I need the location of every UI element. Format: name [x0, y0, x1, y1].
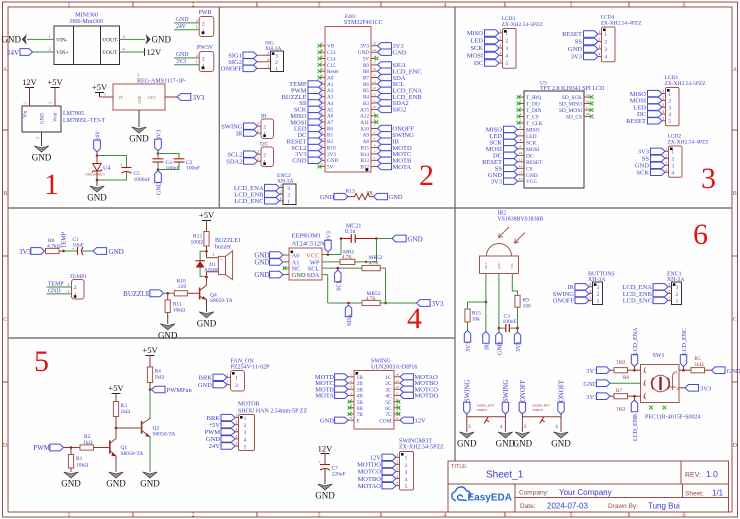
- svg-text:VCC: VCC: [526, 179, 537, 185]
- pin 3 F401 B14: [371, 153, 378, 155]
- net flag SWING to IR pin2: [244, 123, 258, 129]
- wire Q4 emitter to GND: [206, 299, 208, 311]
- svg-text:2: 2: [677, 386, 679, 391]
- svg-text:4: 4: [244, 437, 247, 443]
- svg-text:1: 1: [671, 150, 674, 156]
- svg-text:GND: GND: [315, 491, 335, 501]
- svg-text:4: 4: [396, 474, 398, 479]
- svg-text:TEMP1: TEMP1: [70, 274, 88, 280]
- svg-text:100Ω: 100Ω: [191, 239, 203, 245]
- net label 12V at VOUT: [144, 48, 146, 55]
- pin 13 F401 B5: [371, 89, 378, 91]
- pin 23 F401 3V3: [319, 153, 326, 155]
- net flag MISO: [648, 90, 663, 96]
- svg-text:VOUT: VOUT: [102, 50, 118, 56]
- svg-text:C: C: [733, 317, 737, 323]
- svg-text:Your Company: Your Company: [559, 488, 612, 497]
- svg-text:3V3: 3V3: [327, 152, 336, 158]
- junction VCC: [327, 253, 330, 256]
- pin 8 F401 A11: [371, 121, 378, 123]
- svg-text:DC: DC: [474, 60, 483, 67]
- wire +5V to REG IN: [100, 96, 114, 98]
- svg-text:12V: 12V: [415, 417, 427, 424]
- svg-text:H06-Mini360: H06-Mini360: [70, 19, 103, 25]
- wire 24V to PWR pin1: [174, 29, 199, 31]
- svg-text:5: 5: [570, 512, 573, 518]
- net flag LCD_ENC: [378, 68, 392, 74]
- svg-text:7: 7: [520, 132, 522, 136]
- svg-text:3V3: 3V3: [491, 178, 502, 185]
- svg-text:4: 4: [665, 168, 667, 173]
- pin 25 F401 B2: [319, 140, 326, 142]
- svg-text:B5: B5: [363, 88, 369, 94]
- svg-text:SD_MISO: SD_MISO: [559, 102, 582, 108]
- svg-text:2: 2: [48, 47, 50, 52]
- svg-text:T_IRQ: T_IRQ: [526, 95, 541, 101]
- svg-text:3V3: 3V3: [360, 44, 369, 50]
- svg-text:3: 3: [671, 164, 674, 170]
- net flag PWMFan: [152, 386, 166, 393]
- svg-text:+5V: +5V: [108, 383, 124, 393]
- svg-text:CS: CS: [526, 166, 533, 172]
- svg-text:S8050-TA: S8050-TA: [210, 298, 233, 304]
- ground flag GND at MINI360 VIN-: [22, 34, 27, 45]
- net flag BUZZLE: [308, 94, 322, 100]
- svg-text:GND: GND: [358, 50, 369, 56]
- svg-text:17: 17: [586, 106, 590, 110]
- svg-text:SCK: SCK: [526, 140, 537, 146]
- transistor Q2 S8050-TA: [141, 421, 143, 434]
- svg-text:3: 3: [244, 430, 247, 436]
- pin 8 SWING E: [348, 419, 354, 421]
- pin 20 F401 3V3: [371, 45, 378, 47]
- svg-text:F401: F401: [345, 14, 357, 20]
- svg-text:1B: 1B: [357, 375, 364, 381]
- net flag LED: [648, 104, 663, 110]
- svg-text:14: 14: [519, 177, 523, 181]
- svg-text:MOTCO: MOTCO: [358, 469, 382, 476]
- svg-text:GND: GND: [327, 158, 338, 164]
- svg-text:PWM: PWM: [33, 444, 51, 452]
- junction R12 bottom: [205, 250, 208, 253]
- partition line vertical 2-3: [454, 7, 456, 461]
- svg-text:BRK: BRK: [199, 375, 213, 382]
- svg-text:4: 4: [444, 3, 447, 9]
- svg-text:A2: A2: [327, 88, 334, 94]
- svg-text:1: 1: [589, 296, 591, 301]
- svg-text:2: 2: [671, 157, 674, 163]
- pin 2 F401 B13: [371, 159, 378, 161]
- net flag IR to IR pin1: [244, 130, 258, 136]
- net flag SCK: [308, 106, 322, 112]
- pin 2 EEPROM1 A1: [283, 261, 289, 263]
- net flag MOTDO: [400, 392, 413, 398]
- svg-text:BUZZLE1: BUZZLE1: [215, 238, 241, 244]
- svg-text:GND: GND: [513, 439, 533, 449]
- wire 24V to VIN+: [33, 51, 54, 53]
- net flag LCD_ENA to ENC2: [265, 184, 280, 190]
- svg-text:4: 4: [505, 54, 508, 60]
- net flag DC: [504, 152, 518, 158]
- svg-text:OUT: OUT: [484, 263, 488, 269]
- svg-text:IR: IR: [485, 344, 491, 350]
- svg-text:20: 20: [373, 42, 377, 46]
- EasyEDA logo: [452, 487, 471, 501]
- svg-text:S8050-TA: S8050-TA: [153, 432, 176, 438]
- svg-text:GND: GND: [176, 52, 189, 58]
- svg-text:GND: GND: [254, 258, 269, 266]
- svg-text:1: 1: [267, 64, 269, 69]
- pin 7 F401 A10: [371, 128, 378, 130]
- svg-text:A7: A7: [327, 120, 334, 126]
- net flag LCD_ENC to ENC1: [653, 297, 668, 303]
- net flag 3V3: [584, 53, 599, 59]
- resistor R9 100: [515, 295, 520, 307]
- svg-text:9: 9: [520, 145, 522, 149]
- wire loop C5: [97, 156, 127, 181]
- wire R11 to GND: [167, 313, 169, 324]
- svg-text:3: 3: [122, 34, 124, 39]
- svg-text:3: 3: [267, 50, 269, 55]
- net flag MOSI: [648, 97, 663, 103]
- wire R2 to Q1 base: [94, 447, 110, 449]
- no-connect X: [348, 412, 352, 416]
- no-connect X: [375, 57, 379, 61]
- net flag GND right of C1: [93, 248, 107, 255]
- svg-text:A: A: [643, 369, 646, 374]
- svg-text:3: 3: [598, 44, 600, 49]
- svg-text:5V: 5V: [363, 56, 370, 62]
- svg-text:17: 17: [373, 61, 377, 65]
- pin 5 F401 A8: [371, 140, 378, 142]
- no-connect X: [318, 76, 322, 80]
- svg-text:TITLE:: TITLE:: [451, 464, 468, 470]
- svg-text:1/1: 1/1: [712, 489, 724, 498]
- svg-text:4: 4: [499, 51, 501, 56]
- pin 15 SWING 2C: [394, 382, 400, 384]
- net flag BRK to FAN_ON: [213, 374, 227, 380]
- junction TEMP: [62, 250, 65, 253]
- svg-text:A1: A1: [327, 82, 334, 88]
- svg-text:PEC11R-4015F-S0024: PEC11R-4015F-S0024: [645, 415, 700, 421]
- svg-text:3C: 3C: [385, 387, 392, 393]
- net flag MOTAO: [400, 374, 413, 380]
- svg-text:1: 1: [668, 296, 670, 301]
- wire R9 to junction: [517, 307, 519, 332]
- svg-text:B4: B4: [363, 95, 369, 101]
- svg-text:GND: GND: [61, 479, 81, 489]
- svg-text:DC: DC: [526, 153, 534, 159]
- net flag LCD_ENB to ENC2: [265, 191, 280, 197]
- no-connect X: [397, 400, 401, 404]
- svg-text:1kΩ: 1kΩ: [695, 362, 704, 368]
- net flag SCK: [504, 139, 518, 145]
- net flag MOTBO to SWINGMOT: [382, 475, 396, 481]
- svg-text:1kΩ: 1kΩ: [616, 360, 625, 366]
- svg-text:1: 1: [676, 299, 679, 305]
- diode D1 AN4007 flyback: [200, 251, 206, 260]
- svg-text:LM7805: LM7805: [63, 111, 84, 117]
- net flag RESET: [584, 31, 599, 37]
- svg-text:5: 5: [235, 441, 237, 446]
- svg-text:1: 1: [280, 196, 282, 201]
- svg-text:GND: GND: [583, 381, 597, 388]
- svg-text:3: 3: [405, 470, 408, 476]
- pin 7 U3 LED: [518, 135, 525, 137]
- pin 11 F401 B3: [371, 102, 378, 104]
- net flag SIG1: [243, 52, 257, 58]
- svg-text:3: 3: [280, 183, 282, 188]
- ground symbol SWING_BTN pin3: [460, 432, 475, 438]
- svg-text:1: 1: [597, 299, 600, 305]
- net flag GND to MOTOR: [221, 436, 235, 442]
- pin 3 SWING 3B: [348, 388, 354, 390]
- svg-text:2: 2: [287, 192, 290, 198]
- pin 7 SWING 7B: [348, 413, 354, 415]
- svg-text:GND: GND: [635, 163, 649, 170]
- pin 2 SWING 2B: [348, 382, 354, 384]
- svg-text:LCD_ENC: LCD_ENC: [234, 198, 263, 205]
- svg-text:SHOU HAN 2.54mm-5P ZZ: SHOU HAN 2.54mm-5P ZZ: [238, 408, 307, 414]
- svg-text:+5V: +5V: [92, 82, 108, 92]
- svg-text:5: 5: [405, 484, 408, 490]
- net flag GND: [584, 46, 599, 52]
- ground symbol SWING_BTN pin4: [498, 432, 513, 438]
- net flag ONOFF to BUTTONS: [575, 297, 589, 303]
- svg-text:GND: GND: [152, 34, 172, 44]
- net flag PWM to MOTOR: [221, 429, 235, 435]
- svg-text:3: 3: [701, 162, 716, 195]
- no-connect X: [517, 95, 521, 99]
- svg-text:GND: GND: [320, 417, 334, 424]
- no-connect X: [590, 95, 594, 99]
- svg-text:ONOFF_BTN: ONOFF_BTN: [532, 403, 550, 407]
- svg-text:MISO: MISO: [526, 127, 540, 133]
- wire C1 to GND flag: [82, 250, 94, 252]
- svg-text:5B: 5B: [357, 400, 364, 406]
- svg-text:A0: A0: [327, 76, 334, 82]
- svg-text:S8050-TA: S8050-TA: [121, 451, 144, 457]
- net flag SDA: [378, 74, 392, 80]
- svg-text:2: 2: [662, 96, 664, 101]
- resistor R15 10k: [465, 309, 470, 322]
- net flag MOTCO to SWINGMOT: [382, 468, 396, 474]
- net flag SCK: [651, 169, 666, 175]
- pin 6 SWING 6B: [348, 407, 354, 409]
- net flag MOSI: [308, 119, 322, 125]
- svg-text:5: 5: [396, 481, 398, 486]
- svg-text:4: 4: [671, 171, 674, 177]
- net port GND below IR2: [496, 332, 502, 344]
- svg-text:4: 4: [405, 477, 408, 483]
- svg-text:A6: A6: [327, 114, 334, 120]
- svg-text:GND: GND: [393, 49, 407, 56]
- pin 24 F401 B10: [319, 147, 326, 149]
- net flag MISO: [308, 113, 322, 119]
- svg-text:ZX-XH2.54-5PZZ: ZX-XH2.54-5PZZ: [502, 22, 544, 28]
- ground symbol under REG: [132, 127, 147, 133]
- wire buzzer pin2: [207, 271, 219, 273]
- svg-text:GND: GND: [254, 271, 269, 279]
- svg-text:1: 1: [68, 3, 71, 9]
- svg-text:SWING: SWING: [503, 380, 510, 402]
- svg-text:3V3: 3V3: [327, 231, 333, 241]
- svg-text:12V: 12V: [147, 47, 163, 57]
- svg-text:BRK: BRK: [207, 415, 221, 422]
- no-connect X at NC: [283, 266, 287, 270]
- wire SW1 pin2 to 3V3: [679, 387, 685, 389]
- pin 18 F401 5V: [371, 58, 378, 60]
- net flag SWING: [378, 132, 392, 138]
- pin 19 F401 GND: [371, 51, 378, 53]
- svg-text:LED: LED: [526, 134, 537, 140]
- net flag RESET: [648, 118, 663, 124]
- junction R6 LCD_ENA: [633, 369, 636, 372]
- ground symbol under LM7805: [34, 146, 49, 152]
- wire pin3 to GND: [521, 417, 523, 432]
- svg-text:MOTBO: MOTBO: [358, 476, 382, 483]
- svg-text:3: 3: [275, 53, 278, 59]
- svg-text:GND: GND: [727, 368, 740, 375]
- svg-text:12: 12: [373, 93, 377, 97]
- svg-text:GND: GND: [129, 134, 149, 144]
- svg-text:6: 6: [683, 3, 686, 9]
- junction SCL: [337, 267, 340, 270]
- svg-text:GND: GND: [498, 341, 504, 355]
- svg-text:GND: GND: [568, 46, 582, 53]
- svg-text:3V3: 3V3: [586, 368, 597, 375]
- capacitor C2 100nF: [174, 158, 185, 160]
- wire to 3V3 port: [380, 302, 416, 304]
- svg-text:GND: GND: [176, 17, 189, 23]
- svg-text:4: 4: [668, 112, 671, 118]
- junction PWMFan: [149, 388, 152, 391]
- svg-text:A12: A12: [360, 114, 369, 120]
- pin1 marker dot F401: [366, 168, 369, 171]
- wire loop C2: [158, 154, 179, 170]
- svg-text:RESET: RESET: [526, 160, 543, 166]
- svg-text:B2: B2: [327, 139, 333, 145]
- net flag GND: [504, 172, 518, 178]
- svg-text:11: 11: [519, 158, 523, 162]
- pin 30 F401 A5: [319, 108, 326, 110]
- svg-text:C14: C14: [327, 56, 336, 62]
- pin 17 U3 SD_MOSI: [584, 109, 591, 111]
- net port SDA below: [345, 305, 351, 317]
- connector PWR: [199, 17, 214, 37]
- svg-text:1: 1: [138, 73, 140, 78]
- pin 3 EEPROM1 NC: [283, 267, 289, 269]
- no-connect X under SW1 b: [663, 406, 667, 410]
- net port LCD_ENB below: [634, 396, 636, 400]
- pin 13 SWING 4C: [394, 394, 400, 396]
- svg-text:1: 1: [196, 60, 198, 65]
- net flag SCL2: [308, 144, 322, 150]
- svg-text:B9: B9: [363, 63, 369, 69]
- svg-text:Sheet:: Sheet:: [685, 491, 704, 498]
- net flag GND left of R13: [334, 193, 348, 199]
- svg-text:3: 3: [604, 47, 607, 53]
- wire 12V to Vin: [29, 88, 31, 107]
- svg-text:2: 2: [589, 289, 591, 294]
- net flag LED: [308, 125, 322, 131]
- pin 1 F401 B12: [371, 166, 378, 168]
- svg-text:13: 13: [373, 86, 377, 90]
- svg-text:GND: GND: [551, 439, 571, 449]
- svg-text:16: 16: [373, 67, 377, 71]
- pin 1 U3 T_IRQ: [518, 96, 525, 98]
- svg-text:SCL: SCL: [337, 280, 343, 291]
- svg-text:2: 2: [263, 124, 266, 130]
- junction MC21 left: [340, 237, 343, 240]
- no-connect X: [590, 108, 594, 112]
- no-connect X: [348, 406, 352, 410]
- wire R4 to Q2 collector: [149, 390, 151, 418]
- svg-text:A4: A4: [327, 101, 334, 107]
- net flag 24V to MOTOR: [221, 443, 235, 449]
- svg-text:2: 2: [263, 152, 266, 158]
- ground symbol under Q1: [109, 472, 124, 478]
- svg-text:2: 2: [419, 159, 434, 192]
- junction R3 Q2 base: [115, 427, 118, 430]
- pin 3 U3 T_DIN: [518, 109, 525, 111]
- svg-text:B10: B10: [327, 146, 336, 152]
- net flag MISO: [504, 126, 518, 132]
- svg-text:A15: A15: [360, 107, 369, 113]
- svg-text:18: 18: [586, 112, 590, 116]
- pin 14 U3 VCC: [518, 180, 525, 182]
- svg-text:ONOFF: ONOFF: [553, 298, 575, 305]
- svg-text:LCD_ENC: LCD_ENC: [623, 298, 652, 305]
- switch body wire: [466, 414, 468, 417]
- pin 26 F401 B1: [319, 134, 326, 136]
- wire WP to MR5: [322, 261, 336, 263]
- svg-text:R1: R1: [76, 456, 83, 462]
- svg-text:2: 2: [196, 18, 198, 23]
- svg-text:GND: GND: [197, 318, 217, 328]
- svg-text:MISO: MISO: [467, 30, 484, 37]
- junction MC21 right: [375, 237, 378, 240]
- net flag 12V to SWINGMOT: [382, 454, 396, 460]
- ground symbol under Q4: [199, 312, 214, 318]
- pin 36 F401 Reset: [319, 70, 326, 72]
- svg-text:14: 14: [395, 385, 399, 389]
- junction SDA: [347, 302, 350, 305]
- net flag SCL2 to I2C pin2: [244, 151, 258, 157]
- pin 14 F401 B6: [371, 83, 378, 85]
- pin 11 U3 RESET: [518, 161, 525, 163]
- svg-text:12V: 12V: [318, 444, 334, 454]
- svg-text:1.0: 1.0: [706, 469, 718, 479]
- resistor R3 1k: [113, 402, 118, 417]
- svg-text:3: 3: [676, 285, 679, 291]
- no-connect X: [318, 50, 322, 54]
- net flag SDA2: [378, 100, 392, 106]
- no-connect X: [397, 406, 401, 410]
- svg-text:14: 14: [373, 80, 377, 84]
- svg-text:GND: GND: [158, 330, 178, 340]
- svg-text:C13: C13: [327, 50, 336, 56]
- svg-text:MOTAO: MOTAO: [358, 483, 382, 490]
- net flag SIG1: [378, 62, 392, 68]
- net flag GND right of R13: [374, 193, 388, 199]
- net port 3V3 at SW1 pin2: [685, 385, 699, 392]
- svg-text:10: 10: [373, 105, 377, 109]
- svg-text:+5V: +5V: [208, 422, 220, 429]
- net flag RESET: [504, 159, 518, 165]
- net flag LED: [485, 37, 500, 43]
- svg-text:R6: R6: [623, 375, 629, 381]
